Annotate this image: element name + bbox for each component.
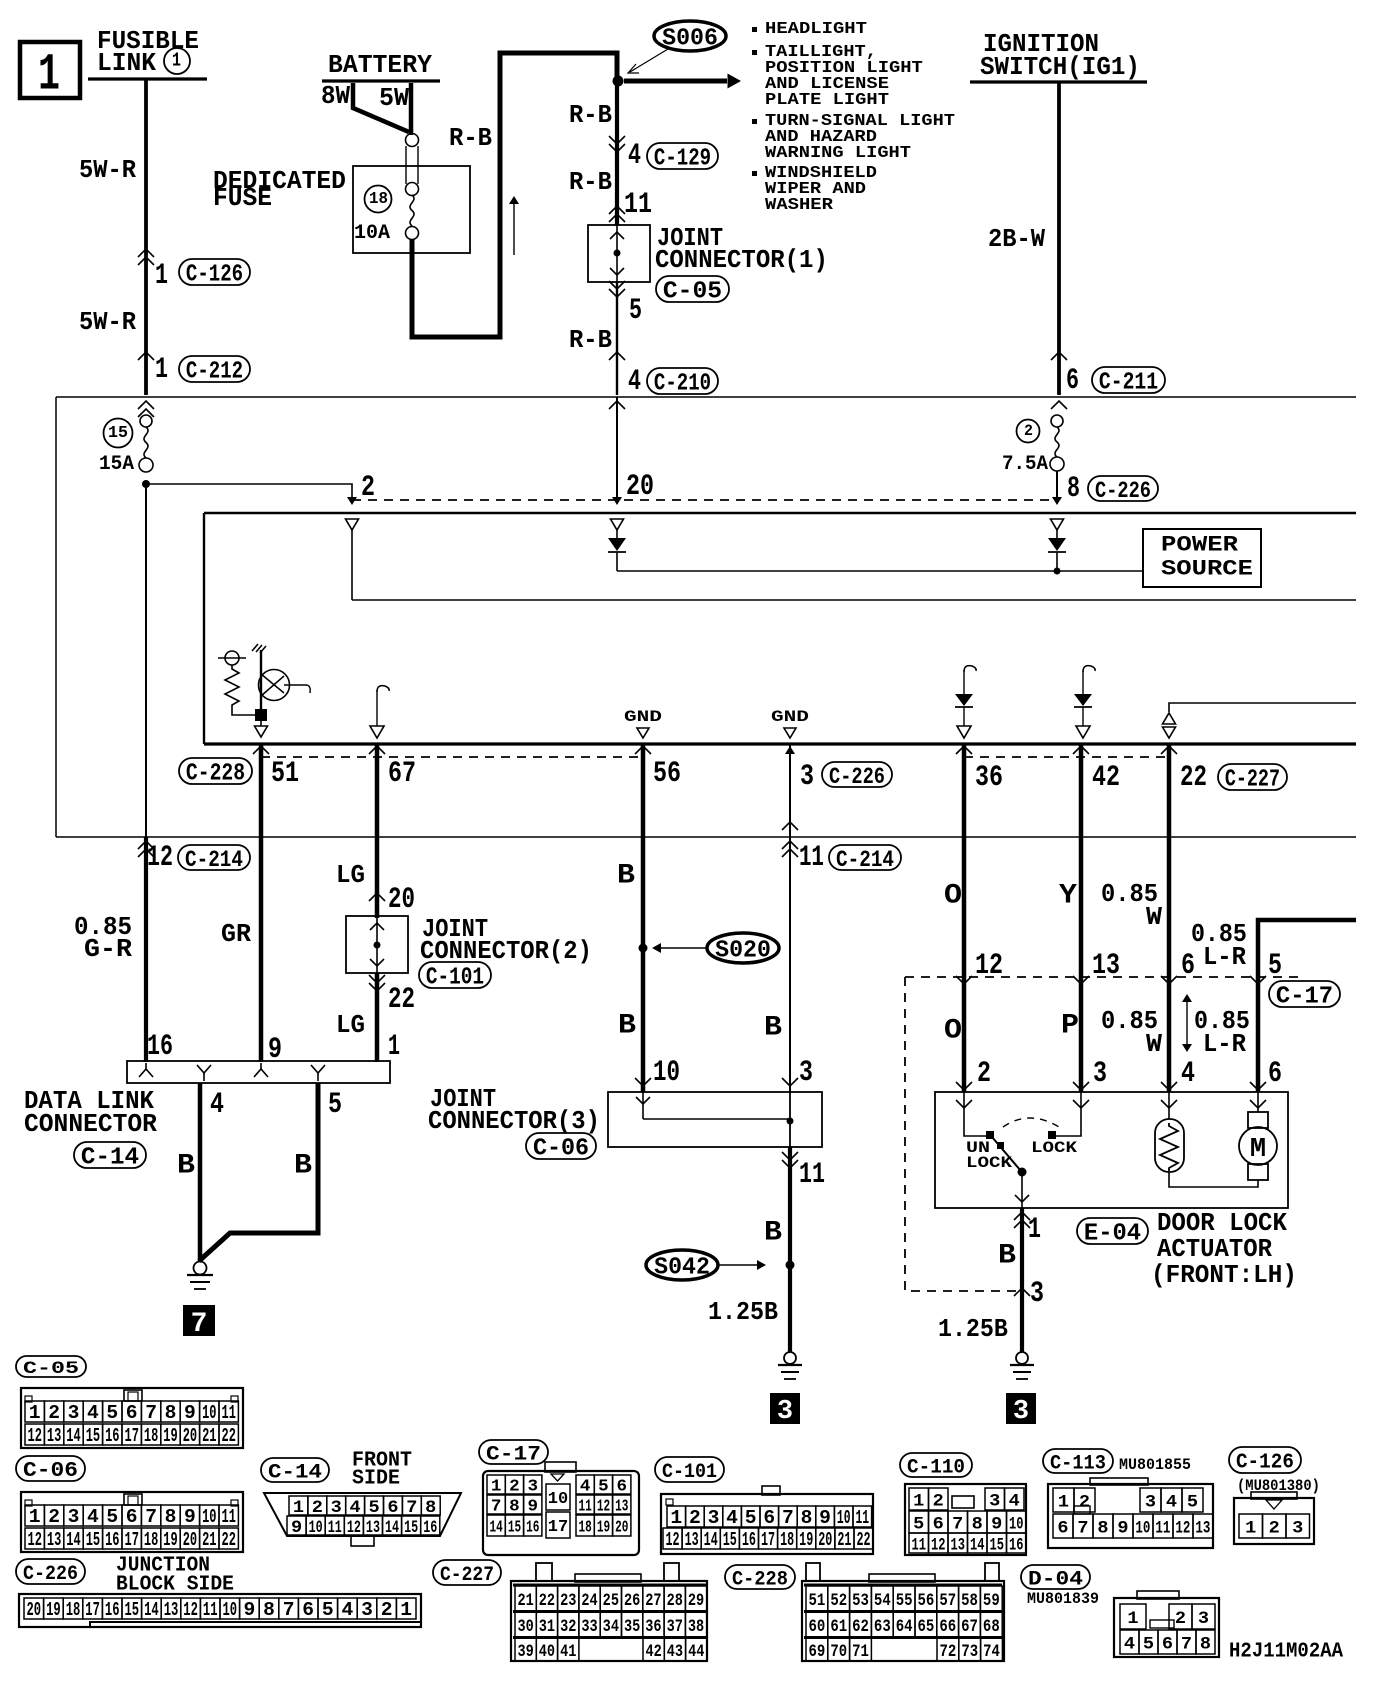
- svg-text:2: 2: [48, 1402, 60, 1424]
- svg-text:6: 6: [1066, 363, 1079, 397]
- svg-text:C-227: C-227: [1225, 767, 1280, 794]
- svg-text:53: 53: [852, 1590, 869, 1610]
- battery 5W wire: [409, 83, 414, 135]
- svg-text:15: 15: [990, 1534, 1004, 1555]
- svg-text:10: 10: [202, 1507, 216, 1529]
- svg-text:2: 2: [933, 1492, 944, 1512]
- svg-text:C-228: C-228: [186, 760, 245, 787]
- double chevron below joint connector 3: [782, 1160, 798, 1168]
- chevron pin 22: [1161, 746, 1177, 754]
- svg-text:6: 6: [1181, 950, 1195, 983]
- svg-text:24: 24: [581, 1590, 598, 1610]
- svg-text:11: 11: [579, 1497, 592, 1516]
- svg-text:32: 32: [560, 1616, 576, 1636]
- svg-text:28: 28: [667, 1590, 683, 1610]
- svg-text:4: 4: [1181, 1058, 1195, 1091]
- svg-text:6: 6: [616, 1478, 627, 1497]
- joint connector (1) internal wire: [616, 225, 618, 282]
- svg-text:7: 7: [782, 1507, 794, 1529]
- svg-text:1: 1: [155, 352, 168, 386]
- svg-text:1: 1: [491, 1478, 502, 1497]
- junction block lower bus line: [56, 836, 1356, 838]
- svg-text:56: 56: [918, 1590, 935, 1610]
- svg-text:1: 1: [388, 1029, 400, 1063]
- svg-text:20: 20: [388, 882, 415, 916]
- solenoid to motor return wire: [1169, 1172, 1258, 1187]
- svg-text:36: 36: [645, 1616, 661, 1636]
- svg-text:C-226: C-226: [829, 765, 885, 790]
- svg-text:B: B: [177, 1149, 195, 1181]
- svg-text:74: 74: [983, 1641, 1000, 1661]
- connector ref C-226: [822, 762, 892, 787]
- joint connector (1) box: [588, 225, 650, 282]
- wire B to ground S042: [788, 1147, 792, 1352]
- svg-text:7: 7: [406, 1498, 417, 1518]
- svg-text:3: 3: [989, 1492, 1000, 1512]
- svg-text:12: 12: [931, 1534, 945, 1555]
- svg-text:34: 34: [603, 1616, 620, 1636]
- svg-text:5W: 5W: [379, 84, 410, 114]
- svg-text:16: 16: [423, 1516, 437, 1537]
- svg-text:10: 10: [223, 1600, 238, 1621]
- svg-text:54: 54: [874, 1590, 891, 1610]
- svg-text:12: 12: [975, 950, 1003, 983]
- svg-text:11: 11: [799, 1157, 825, 1191]
- svg-text:7: 7: [145, 1506, 157, 1528]
- svg-text:13: 13: [1092, 950, 1120, 983]
- svg-text:C-17: C-17: [1276, 984, 1333, 1011]
- svg-text:Y: Y: [1059, 879, 1078, 911]
- door lock switch wire from pin 3: [1056, 1092, 1081, 1136]
- svg-text:C-06: C-06: [23, 1459, 78, 1483]
- door lock actuator box: [935, 1092, 1288, 1208]
- svg-text:13: 13: [366, 1516, 380, 1537]
- connector ref C-14: [74, 1142, 146, 1168]
- svg-text:3: 3: [68, 1506, 80, 1528]
- joint connector (1) internal dot: [614, 250, 621, 257]
- svg-text:8: 8: [165, 1506, 177, 1528]
- svg-text:12: 12: [28, 1530, 42, 1552]
- wire Y pin 42 down: [1079, 744, 1084, 837]
- svg-text:3: 3: [1292, 1519, 1303, 1539]
- svg-text:POWER: POWER: [1161, 533, 1239, 558]
- connector ref C-129: [647, 143, 718, 169]
- connector C-17 pinout table: [483, 1471, 639, 1555]
- svg-text:C-06: C-06: [533, 1135, 589, 1162]
- connector C-06 pinout table: [21, 1492, 243, 1552]
- svg-text:37: 37: [667, 1616, 683, 1636]
- connector ref C-212: [179, 356, 250, 382]
- joint connector (3) internal wiring: [642, 1092, 644, 1119]
- svg-text:58: 58: [961, 1590, 978, 1610]
- svg-text:18: 18: [144, 1530, 158, 1552]
- svg-text:PLATE LIGHT: PLATE LIGHT: [765, 91, 889, 110]
- svg-text:8: 8: [425, 1498, 436, 1518]
- leader arrow from S042 to junction: [719, 1264, 758, 1266]
- svg-text:8: 8: [509, 1498, 520, 1517]
- svg-text:13: 13: [615, 1497, 628, 1516]
- svg-text:7: 7: [491, 1498, 502, 1517]
- svg-text:23: 23: [560, 1590, 576, 1610]
- door lock motor M1: [1248, 1112, 1268, 1128]
- svg-text:1: 1: [29, 1506, 41, 1528]
- svg-text:C-101: C-101: [426, 964, 484, 991]
- svg-text:43: 43: [667, 1641, 683, 1661]
- svg-text:13: 13: [1195, 1517, 1210, 1538]
- connector ref C-06 (pinout): [16, 1456, 85, 1481]
- svg-text:51: 51: [809, 1590, 826, 1610]
- svg-text:7: 7: [283, 1599, 295, 1621]
- wire from fuse 15 down to C-214: [145, 484, 147, 837]
- connector ref C-211: [1092, 367, 1165, 393]
- svg-text:5: 5: [1268, 950, 1282, 983]
- svg-text:7: 7: [191, 1309, 208, 1340]
- feed arrow to headlight circuits: [624, 79, 727, 84]
- svg-text:41: 41: [560, 1641, 576, 1661]
- connector C-110 pinout table: [905, 1484, 1026, 1555]
- svg-text:C-214: C-214: [836, 847, 894, 873]
- svg-text:C-226: C-226: [1095, 479, 1151, 504]
- svg-text:5: 5: [913, 1515, 924, 1535]
- svg-text:5: 5: [368, 1498, 379, 1518]
- svg-text:6: 6: [1057, 1519, 1068, 1539]
- ETACS unit top edge: [204, 512, 1356, 514]
- svg-text:16: 16: [105, 1600, 120, 1621]
- svg-text:4: 4: [87, 1506, 99, 1528]
- battery 8W wire: [353, 83, 409, 132]
- svg-text:S006: S006: [662, 25, 718, 52]
- svg-text:20: 20: [183, 1530, 197, 1552]
- svg-text:2: 2: [977, 1058, 991, 1091]
- connector ref C-05: [656, 276, 729, 302]
- svg-text:C-126: C-126: [1236, 1451, 1294, 1475]
- door lock solenoid: [1155, 1119, 1184, 1172]
- internal link to pin 22: [1169, 703, 1356, 712]
- connector ref C-110 (pinout): [900, 1453, 972, 1477]
- svg-text:26: 26: [624, 1590, 640, 1610]
- svg-text:O: O: [944, 1014, 962, 1046]
- connector ref C-228 (pinout): [725, 1565, 795, 1589]
- svg-text:B: B: [998, 1239, 1016, 1271]
- svg-text:3: 3: [799, 1057, 813, 1090]
- svg-text:5: 5: [328, 1089, 342, 1122]
- svg-text:25: 25: [603, 1590, 619, 1610]
- svg-text:C-101: C-101: [662, 1460, 717, 1483]
- chevron pin 42: [1073, 746, 1089, 754]
- connector ref C-101 (pinout): [655, 1457, 724, 1482]
- svg-text:55: 55: [896, 1590, 913, 1610]
- chevron pin 3: [782, 1078, 798, 1086]
- svg-text:56: 56: [653, 758, 681, 791]
- input triangle pin 8: [1051, 519, 1064, 530]
- svg-text:CONNECTOR(1): CONNECTOR(1): [655, 245, 828, 275]
- svg-text:C-05: C-05: [663, 279, 722, 306]
- dashed harness boundary: [905, 977, 1016, 1291]
- connector ref C-101: [419, 962, 491, 988]
- svg-text:11: 11: [912, 1534, 926, 1555]
- transistor Q1 base lead: [260, 650, 262, 712]
- svg-text:5W-R: 5W-R: [79, 156, 136, 185]
- svg-text:11: 11: [328, 1516, 342, 1537]
- svg-text:1: 1: [1028, 1212, 1041, 1246]
- svg-text:2: 2: [48, 1506, 60, 1528]
- svg-text:1: 1: [670, 1507, 682, 1529]
- svg-text:5: 5: [1143, 1635, 1154, 1655]
- svg-text:35: 35: [624, 1616, 640, 1636]
- double chevron into joint connector: [609, 206, 625, 214]
- load list bullet 2: [752, 50, 757, 55]
- chevron pin 67: [369, 746, 385, 754]
- svg-text:70: 70: [830, 1641, 847, 1661]
- wire O pin 36 down: [962, 744, 967, 837]
- svg-text:W: W: [1146, 902, 1162, 932]
- wire resistor to emitter node: [232, 708, 255, 715]
- unlock contact: [986, 1131, 994, 1139]
- svg-text:5: 5: [629, 293, 642, 327]
- svg-text:17: 17: [85, 1600, 100, 1621]
- svg-text:15: 15: [404, 1516, 418, 1537]
- svg-text:17: 17: [548, 1518, 568, 1537]
- ground ref box 3 right: [1006, 1393, 1036, 1424]
- svg-text:2: 2: [312, 1498, 323, 1518]
- svg-text:C-05: C-05: [23, 1359, 79, 1379]
- svg-text:22: 22: [222, 1426, 236, 1448]
- svg-text:4: 4: [87, 1402, 99, 1424]
- svg-text:6: 6: [763, 1507, 775, 1529]
- motor wire from pin 6: [1257, 1092, 1259, 1112]
- ground wire from pin 5: [199, 1083, 318, 1261]
- svg-text:HEADLIGHT: HEADLIGHT: [765, 20, 867, 39]
- solenoid wire from pin 4: [1168, 1092, 1170, 1119]
- svg-text:WARNING LIGHT: WARNING LIGHT: [765, 144, 911, 163]
- svg-text:13: 13: [47, 1426, 61, 1448]
- fuse 15 circled label: [104, 419, 133, 448]
- svg-text:C-210: C-210: [654, 370, 711, 398]
- ground wire down to joint connector 3 pin 3: [789, 837, 791, 1092]
- svg-text:4: 4: [726, 1507, 738, 1529]
- internal bus wire: [352, 599, 1356, 601]
- svg-text:6: 6: [302, 1599, 314, 1621]
- actuator pin 1 wire to ground: [1020, 1208, 1024, 1352]
- svg-text:C-211: C-211: [1099, 369, 1158, 396]
- splice ref S006: [654, 21, 726, 51]
- svg-text:S042: S042: [654, 1254, 710, 1281]
- ground wire from pin 4: [198, 1083, 203, 1261]
- svg-text:1.25B: 1.25B: [708, 1298, 778, 1327]
- svg-text:19: 19: [46, 1600, 61, 1621]
- svg-text:29: 29: [688, 1590, 704, 1610]
- svg-text:3: 3: [68, 1402, 80, 1424]
- svg-text:17: 17: [125, 1530, 139, 1552]
- connector C-113 pinout table: [1048, 1484, 1213, 1548]
- chevron pin 6: [1161, 976, 1177, 984]
- splice S042 junction dot: [786, 1261, 795, 1270]
- svg-text:3: 3: [1145, 1493, 1156, 1513]
- svg-text:8: 8: [1097, 1519, 1108, 1539]
- chevron below bus at wire 20: [609, 401, 625, 409]
- joint connector (2) internal dot: [374, 942, 381, 949]
- svg-text:17: 17: [125, 1426, 139, 1448]
- bar chevron 16: [145, 1063, 147, 1069]
- chevron on ground wire: [782, 822, 798, 830]
- connector ref C-14 (pinout): [261, 1458, 329, 1482]
- svg-text:3: 3: [708, 1507, 720, 1529]
- svg-text:66: 66: [939, 1616, 956, 1636]
- connector ref C-17 (pinout): [479, 1440, 548, 1464]
- wire GR pin 51 to data link connector: [259, 744, 264, 1062]
- wire 2B-W from ignition switch: [1057, 82, 1061, 395]
- svg-text:19: 19: [597, 1518, 610, 1537]
- svg-text:3: 3: [800, 761, 814, 794]
- connector ref C-227: [1218, 764, 1287, 790]
- chevron pin 51: [253, 746, 269, 754]
- junction block left edge: [55, 397, 57, 837]
- connector ref C-05 (pinout): [16, 1356, 86, 1377]
- svg-text:LOCK: LOCK: [966, 1155, 1012, 1173]
- wire LG down to joint connector 2: [375, 837, 380, 918]
- svg-text:20: 20: [626, 471, 654, 504]
- dedicated fuse box: [353, 166, 470, 253]
- svg-text:10: 10: [202, 1403, 216, 1425]
- load list bullet 3: [752, 119, 757, 124]
- svg-text:20: 20: [818, 1530, 832, 1552]
- svg-text:67: 67: [961, 1616, 978, 1636]
- svg-text:CONNECTOR: CONNECTOR: [24, 1110, 158, 1140]
- internal output symbol pin 67: [377, 686, 389, 692]
- wire R-B from dedicated fuse to S006: [412, 53, 617, 337]
- svg-text:3: 3: [527, 1478, 538, 1497]
- svg-text:C-212: C-212: [186, 358, 243, 386]
- connector C-14 pinout table: [264, 1493, 461, 1536]
- svg-text:51: 51: [271, 758, 299, 791]
- svg-text:14: 14: [490, 1518, 504, 1537]
- svg-text:19: 19: [799, 1530, 813, 1552]
- svg-text:R-B: R-B: [569, 101, 612, 130]
- connector ref C-226: [1088, 476, 1158, 501]
- connector C-101 pinout table: [661, 1494, 873, 1554]
- connector ref C-126 (pinout): [1229, 1447, 1301, 1473]
- svg-text:27: 27: [645, 1590, 661, 1610]
- svg-text:30: 30: [517, 1616, 533, 1636]
- svg-text:P: P: [1061, 1009, 1079, 1041]
- bar chevron 9: [260, 1063, 262, 1069]
- svg-text:15: 15: [86, 1530, 100, 1552]
- wire 0.85 W down to solenoid: [1167, 837, 1172, 1092]
- switch travel dashed arc: [1003, 1118, 1059, 1127]
- svg-text:52: 52: [830, 1590, 847, 1610]
- svg-text:38: 38: [688, 1616, 704, 1636]
- svg-text:4: 4: [341, 1599, 353, 1621]
- svg-text:LOCK: LOCK: [1031, 1140, 1077, 1158]
- svg-text:1.25B: 1.25B: [938, 1315, 1008, 1344]
- fuse holder body: [405, 146, 407, 184]
- svg-text:12: 12: [1175, 1517, 1190, 1538]
- fuse bottom terminal: [406, 227, 419, 240]
- wire R-B from joint connector 1 down to C-210: [616, 282, 618, 395]
- fuse 15 bottom terminal: [139, 458, 153, 472]
- chevron below bus at ignition wire: [1051, 401, 1067, 409]
- svg-text:8: 8: [801, 1507, 813, 1529]
- svg-text:4: 4: [210, 1089, 224, 1122]
- ETACS unit bottom edge: [204, 742, 1356, 745]
- svg-text:9: 9: [243, 1599, 255, 1621]
- svg-text:C-226: C-226: [23, 1562, 78, 1585]
- svg-text:1: 1: [155, 258, 168, 292]
- connector ref C-214: [829, 845, 901, 870]
- svg-text:10: 10: [309, 1516, 323, 1537]
- svg-text:13: 13: [47, 1530, 61, 1552]
- svg-text:R-B: R-B: [569, 326, 612, 355]
- svg-text:L-R: L-R: [1203, 1030, 1246, 1059]
- svg-text:11: 11: [799, 841, 824, 875]
- svg-text:39: 39: [517, 1641, 533, 1661]
- wire O down to door lock actuator: [962, 837, 967, 1092]
- emitter junction dot: [255, 709, 267, 721]
- connector C-126 pinout table: [1234, 1498, 1314, 1544]
- leader arrow from S020 to junction: [658, 947, 706, 949]
- chevron pin 12: [956, 976, 972, 984]
- svg-text:21: 21: [202, 1426, 216, 1448]
- svg-text:(MU801380): (MU801380): [1237, 1478, 1320, 1495]
- switch common dot: [1018, 1168, 1027, 1177]
- svg-text:LG: LG: [336, 860, 365, 890]
- joint connector (2) box: [346, 916, 408, 973]
- load list bullet 1: [752, 27, 757, 32]
- load list bullet 4: [752, 171, 757, 176]
- svg-text:10: 10: [653, 1055, 680, 1089]
- svg-text:SWITCH(IG1): SWITCH(IG1): [980, 52, 1140, 82]
- chevron pin 36: [956, 746, 972, 754]
- double chevron below joint connector 2: [369, 983, 385, 991]
- svg-text:10A: 10A: [354, 222, 390, 245]
- switch output wire to pin 1: [1021, 1172, 1023, 1208]
- svg-text:42: 42: [1092, 762, 1120, 795]
- ground wire pin 3 down: [789, 744, 791, 837]
- fuse 2 top terminal: [1051, 415, 1063, 427]
- svg-text:21: 21: [517, 1590, 533, 1610]
- svg-text:21: 21: [837, 1530, 851, 1552]
- dashed internal link pins 2-20-8: [352, 499, 1057, 501]
- connector ref C-126: [179, 259, 250, 285]
- connector C-227 pinout table: [536, 1563, 552, 1581]
- svg-text:3: 3: [361, 1599, 373, 1621]
- double chevron at C-214 pin 11: [782, 841, 798, 849]
- svg-text:2: 2: [689, 1507, 701, 1529]
- svg-text:MU801839: MU801839: [1027, 1590, 1099, 1609]
- svg-text:13: 13: [951, 1534, 965, 1555]
- svg-text:5: 5: [106, 1402, 118, 1424]
- connector C-05 pinout table: [21, 1388, 243, 1448]
- svg-text:2B-W: 2B-W: [988, 225, 1045, 254]
- double chevron at C-214 pin 12: [138, 841, 154, 849]
- svg-text:3: 3: [1198, 1609, 1209, 1629]
- svg-text:6: 6: [126, 1506, 138, 1528]
- wire from pin 2 to internal bus: [351, 530, 353, 600]
- svg-text:9: 9: [291, 1518, 302, 1538]
- svg-text:11: 11: [222, 1403, 236, 1425]
- svg-text:5: 5: [106, 1506, 118, 1528]
- svg-text:1: 1: [400, 1599, 412, 1621]
- svg-text:LG: LG: [336, 1010, 365, 1040]
- svg-text:12: 12: [597, 1497, 610, 1516]
- svg-text:12: 12: [147, 840, 173, 874]
- svg-text:FUSE: FUSE: [213, 184, 272, 214]
- double chevron below actuator: [1014, 1212, 1030, 1220]
- svg-text:14: 14: [704, 1530, 718, 1552]
- svg-text:6: 6: [933, 1515, 944, 1535]
- svg-text:LINK: LINK: [97, 49, 157, 79]
- svg-text:62: 62: [852, 1616, 869, 1636]
